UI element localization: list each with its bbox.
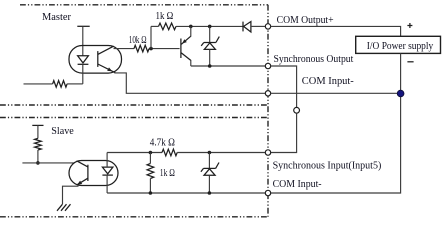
slave supply stub terminal xyxy=(32,124,43,126)
svg-text:10k Ω: 10k Ω xyxy=(129,35,147,46)
phototransistor inside master optocoupler xyxy=(97,51,99,67)
wire synchronous output rail xyxy=(191,65,265,67)
wire slave resistor to node xyxy=(37,150,39,163)
resistor R-1k slave xyxy=(147,164,154,179)
junction supply minus / COM Input- xyxy=(397,90,404,97)
wire sync link to slave input xyxy=(271,113,297,152)
resistor slave pull-up xyxy=(35,138,42,150)
transistor Q1 (PNP) xyxy=(180,39,182,59)
svg-text:COM Input-: COM Input- xyxy=(273,179,322,190)
node slave rail / 1k xyxy=(149,151,153,155)
node top rail / transistor emitter xyxy=(189,25,193,29)
svg-text:I/O Power supply: I/O Power supply xyxy=(367,41,433,52)
wire 10k to base xyxy=(149,48,180,50)
terminal COM Output+ xyxy=(265,24,270,29)
master enclosure top dashed border xyxy=(20,4,268,6)
resistor R-4.7k xyxy=(162,149,177,156)
zener diode ZD2 (slave) xyxy=(208,153,210,169)
svg-text:4.7k Ω: 4.7k Ω xyxy=(150,137,175,148)
master phototransistor emitter arrow xyxy=(107,67,112,71)
label + supply xyxy=(407,25,412,27)
wire diode to COM Output+ terminal xyxy=(251,25,265,27)
wire master input left xyxy=(24,83,53,85)
master enclosure bottom dashed border xyxy=(0,104,268,106)
wire branch up to 1k xyxy=(150,26,152,48)
slave enclosure bottom dashed border xyxy=(0,216,268,218)
wire to 1k resistor xyxy=(151,25,159,27)
svg-text:Master: Master xyxy=(42,12,72,23)
connector node sync link xyxy=(294,107,300,113)
terminal COM Input- master xyxy=(265,91,270,96)
svg-text:Synchronous Input(Input5): Synchronous Input(Input5) xyxy=(273,161,382,172)
svg-text:COM Output+: COM Output+ xyxy=(277,15,334,26)
wire slave LED cathode xyxy=(106,175,108,193)
wire slave top rail left xyxy=(107,152,162,154)
resistor master input series xyxy=(53,81,68,88)
LED D3 inside slave optocoupler xyxy=(102,167,113,174)
LED D1 inside master optocoupler xyxy=(78,56,89,63)
wire master collector to 10k xyxy=(114,48,135,50)
node slave input xyxy=(36,161,40,165)
right dashed border / terminal boundary xyxy=(267,5,269,217)
phototransistor inside slave optocoupler xyxy=(87,165,89,181)
node slave bottom / zener xyxy=(208,191,212,195)
I/O power supply box xyxy=(356,36,441,53)
wire sync output link down xyxy=(271,66,297,108)
transistor Q1 emitter arrow xyxy=(182,39,187,43)
wire slave 1k leads xyxy=(149,153,151,164)
optocoupler PC1 body (master) xyxy=(69,46,122,74)
resistor R-10k xyxy=(134,45,149,52)
optocoupler PC2 body (slave) xyxy=(69,161,118,186)
terminal Synchronous Output xyxy=(265,63,270,68)
svg-text:Slave: Slave xyxy=(51,126,74,137)
wire master LED cathode xyxy=(82,64,84,84)
node sync output / zener xyxy=(208,64,212,68)
label - supply xyxy=(407,61,413,63)
node slave bottom / 1k xyxy=(149,191,153,195)
wire master emitter down xyxy=(114,73,265,93)
ground xyxy=(57,204,63,211)
node slave rail / zener xyxy=(208,151,212,155)
wire slave LED anode xyxy=(106,153,108,168)
slave enclosure top dashed border xyxy=(0,117,268,119)
wire COM Input- master to minus rail xyxy=(271,92,401,94)
svg-text:Synchronous Output: Synchronous Output xyxy=(274,54,354,65)
zener diode ZD1 (master) xyxy=(209,26,211,42)
node 10k / 1k branch xyxy=(149,47,153,51)
wire master input to LED xyxy=(67,83,83,85)
wire slave input row xyxy=(22,162,74,164)
wire top rail xyxy=(176,25,243,27)
diode D2 output xyxy=(242,22,244,32)
svg-text:1k Ω: 1k Ω xyxy=(156,11,174,22)
svg-text:1k Ω: 1k Ω xyxy=(160,168,175,179)
terminal COM Input- slave xyxy=(265,190,270,195)
svg-text:COM Input-: COM Input- xyxy=(302,76,354,87)
slave phototransistor emitter arrow xyxy=(77,181,82,185)
wire slave bottom rail xyxy=(107,192,265,194)
wire COM Output+ to supply xyxy=(271,26,401,36)
wire slave top rail right xyxy=(177,152,265,154)
wire master LED anode xyxy=(82,26,84,55)
wire supply minus rail xyxy=(271,53,401,193)
terminal Synchronous Input xyxy=(265,150,270,155)
resistor R-1k master xyxy=(159,23,177,30)
master LED supply stub terminal xyxy=(77,25,89,27)
wire slave emitter to ground xyxy=(63,186,79,204)
wire slave stub down xyxy=(37,125,39,138)
node top rail / zener xyxy=(208,25,212,29)
